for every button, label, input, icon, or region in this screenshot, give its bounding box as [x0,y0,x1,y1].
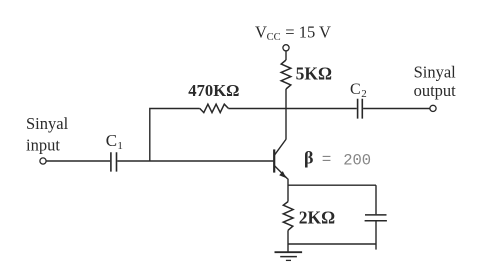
svg-text:C: C [106,131,117,150]
svg-text:2KΩ: 2KΩ [299,207,335,227]
svg-text:200: 200 [343,151,371,169]
svg-text:= 15 V: = 15 V [285,22,331,41]
svg-text:output: output [414,81,457,100]
svg-text:V: V [255,22,267,41]
svg-text:input: input [26,135,60,154]
svg-text:Sinyal: Sinyal [414,62,457,81]
svg-text:C: C [350,81,361,98]
svg-text:CC: CC [267,32,281,43]
svg-text:2: 2 [361,88,367,100]
svg-text:5KΩ: 5KΩ [296,63,332,83]
svg-text:1: 1 [117,140,123,152]
svg-text:Sinyal: Sinyal [26,114,69,133]
svg-text:β: β [304,148,313,168]
svg-text:=: = [322,151,332,169]
svg-text:470KΩ: 470KΩ [188,81,239,100]
